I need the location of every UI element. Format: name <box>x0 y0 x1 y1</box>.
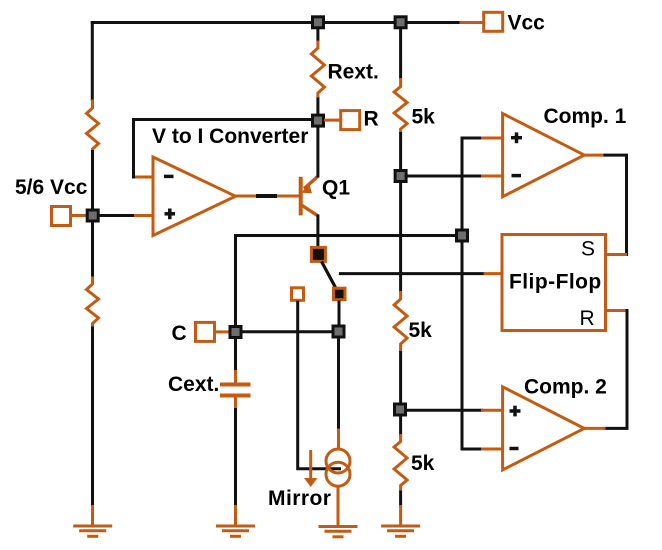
wire flip-flop input from switch <box>339 272 485 275</box>
svg-text:5/6 Vcc: 5/6 Vcc <box>15 176 88 199</box>
wire Q1 base lead <box>277 195 300 198</box>
wire ground lead mirror <box>337 486 340 526</box>
wire comp1 plus input horizontal <box>461 137 484 140</box>
wire Vcc terminal stub <box>460 21 483 24</box>
junction 1/3 Vcc tap <box>395 404 406 415</box>
current mirror circles <box>326 449 350 473</box>
svg-text:Comp. 1: Comp. 1 <box>544 105 627 128</box>
label op-amp minus input <box>164 175 174 179</box>
wire switch throw down to C node <box>338 301 341 328</box>
wire Q1 collector down to switch <box>316 215 319 248</box>
switch throw contact open <box>292 288 304 301</box>
wire 5/6 Vcc to op-amp + input <box>98 214 136 217</box>
resistor left upper (5/6 Vcc divider top) <box>87 100 99 152</box>
resistor left lower (5/6 Vcc divider bottom) <box>87 277 99 328</box>
wire S input stub <box>606 253 628 256</box>
terminal C <box>196 322 215 341</box>
resistor 5k third <box>394 434 407 492</box>
svg-text:R: R <box>364 108 379 131</box>
junction R node <box>313 115 324 126</box>
wire op-amp output stub <box>236 195 259 198</box>
wire left vertical lower segment <box>91 327 94 508</box>
wire feedback horizontal to R node <box>132 118 317 121</box>
svg-text:5k: 5k <box>411 452 435 475</box>
wire comp1 output to S <box>604 155 627 256</box>
junction top rail left (Rext node) <box>313 17 324 28</box>
wire 5k chain upper lead <box>399 28 402 79</box>
terminal R <box>341 111 360 130</box>
wire Cext bottom lead orange <box>234 398 237 411</box>
wire ground lead Cext <box>234 505 237 526</box>
junction cap node comparator column <box>457 230 468 241</box>
wire op-amp output black segment <box>256 194 277 198</box>
wire C node down to mirror <box>337 337 340 430</box>
wire 5k chain below tap <box>399 415 402 437</box>
junction top rail right (5k chain top) <box>395 17 406 28</box>
wire top rail Vcc horizontal <box>91 21 460 24</box>
wire C terminal stub <box>215 330 230 333</box>
wire comp2 plus input stub <box>481 409 503 412</box>
wire Q1 emitter up to R node <box>316 121 319 178</box>
wire C node horizontal <box>241 330 333 333</box>
label comp1 plus input <box>511 132 522 143</box>
label op-amp plus input <box>165 209 176 220</box>
label comp2 plus input <box>510 406 521 417</box>
svg-text:R: R <box>580 307 595 330</box>
svg-text:Rext.: Rext. <box>328 61 379 84</box>
ground mirror <box>319 527 358 537</box>
flip-flop block <box>502 235 606 331</box>
wire comp2 output stub <box>584 427 605 430</box>
junction 2/3 Vcc tap <box>395 171 406 182</box>
svg-text:5k: 5k <box>409 319 433 342</box>
wire comp2 minus input stub <box>481 448 503 451</box>
label comp1 minus input <box>512 174 522 178</box>
svg-text:Cext.: Cext. <box>168 373 219 396</box>
wire feedback vertical <box>132 120 135 179</box>
resistor 5k first <box>394 78 407 133</box>
svg-text:Flip-Flop: Flip-Flop <box>509 271 602 294</box>
svg-text:C: C <box>172 322 187 345</box>
wire op-amp feedback - input stub <box>134 176 154 179</box>
comparator U2 Comp.1 triangle <box>503 114 585 197</box>
wire left vertical upper segment <box>91 21 94 101</box>
switch arm <box>322 262 336 288</box>
junction C node right <box>333 326 344 337</box>
resistor 5k second <box>394 291 407 352</box>
comparator U3 Comp.2 triangle <box>503 387 585 470</box>
wire cap node horizontal <box>236 236 463 327</box>
wire comp1 minus input horizontal <box>406 175 483 178</box>
wire Cext top lead <box>234 337 237 372</box>
ground 5k chain <box>381 526 420 536</box>
wire comparator column vertical upper <box>461 140 464 232</box>
wire left vertical middle segment <box>91 150 94 278</box>
svg-text:Mirror: Mirror <box>268 487 331 510</box>
svg-text:Comp. 2: Comp. 2 <box>524 376 607 399</box>
wire op-amp + input stub <box>134 214 153 217</box>
switch common contact (from Q1) <box>311 247 325 261</box>
wire comp2 output to R <box>604 309 628 428</box>
wire comparator column vertical lower <box>462 240 483 449</box>
svg-text:V to I Converter: V to I Converter <box>152 125 308 148</box>
wire ground lead left <box>91 505 94 526</box>
wire 5k chain mid lower <box>399 351 402 404</box>
label comp2 minus input <box>510 447 519 451</box>
transistor Q1 <box>301 176 318 216</box>
terminal Vcc <box>484 12 503 31</box>
wire R terminal stub <box>324 119 341 122</box>
capacitor Cext <box>220 385 251 396</box>
mirror arrow <box>309 450 312 480</box>
ground Cext <box>216 526 255 536</box>
wire comp1 minus input stub <box>481 175 503 178</box>
wire flip-flop left input stub <box>484 272 502 275</box>
wire Cext bottom lead <box>234 408 237 507</box>
svg-text:Vcc: Vcc <box>508 12 546 35</box>
op-amp U1 V-to-I converter triangle <box>153 157 236 236</box>
ground left divider <box>73 526 112 536</box>
svg-text:Q1: Q1 <box>322 177 350 200</box>
wire 5k chain to comp1 - tap <box>399 132 402 292</box>
svg-text:S: S <box>581 238 595 261</box>
wire mirror top lead <box>337 429 340 451</box>
svg-text:5k: 5k <box>412 106 436 129</box>
wire comp1 plus input stub <box>481 137 503 140</box>
switch throw contact closed <box>334 288 346 300</box>
resistor Rext <box>316 28 319 42</box>
wire 5/6 Vcc terminal stub <box>71 214 87 217</box>
terminal 5/6 Vcc <box>52 207 71 226</box>
wire Cext top lead orange <box>234 370 237 383</box>
wire comp2 plus input horizontal <box>405 409 483 412</box>
junction C node left <box>230 327 241 338</box>
wire 5k chain bottom lead <box>399 491 402 508</box>
wire comp1 output stub <box>584 154 605 157</box>
wire ground lead 5k chain <box>399 505 402 526</box>
wire R input stub <box>606 309 628 312</box>
wire open contact down and to mirror <box>298 301 341 469</box>
junction 5/6 Vcc node <box>87 210 98 221</box>
